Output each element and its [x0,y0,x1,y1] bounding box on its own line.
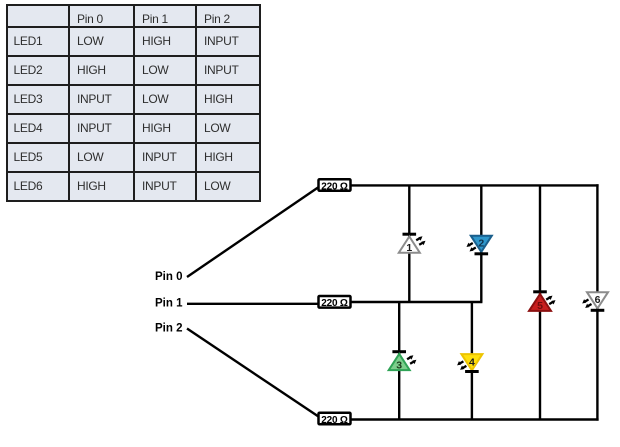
wire top rail (net A, from R1) [350,184,599,186]
svg-text:4: 4 [469,356,475,368]
LED D6 triangle body [587,292,608,308]
LED D3 triangle body [389,354,410,370]
svg-text:Pin 0: Pin 0 [155,271,182,283]
wire Pin 1 to R2 (horizontal) [187,303,319,305]
wire middle rail (net B, from R2) [350,301,482,303]
LED D1 cathode bar [403,233,417,236]
resistor R3 body [319,413,351,425]
wire LED1 branch (top rail to middle rail) [408,185,410,302]
svg-text:3: 3 [396,359,402,371]
svg-text:220 Ω: 220 Ω [321,181,348,192]
wire LED2 branch (top rail to middle rail end) [480,185,482,302]
svg-text:1: 1 [406,242,412,254]
LED D5 light arrows [546,297,551,300]
wire LED4 branch (middle rail to bottom rail) [471,302,473,420]
resistor R1 body [319,179,351,191]
svg-text:6: 6 [595,294,601,306]
LED D1 light arrows [416,238,421,241]
LED D6 cathode bar [591,309,605,312]
LED D4 light arrows [459,361,464,364]
LED D3 light arrows [407,357,412,360]
resistor R2 [319,296,351,309]
LED D3 (green, cathode up) [389,352,417,372]
resistor R1 [319,179,351,192]
svg-text:Pin 1: Pin 1 [155,298,183,310]
LED D4 triangle body [461,354,482,370]
LED D6 light arrows [584,300,589,303]
svg-text:Pin 2: Pin 2 [155,323,182,335]
resistor R2 body [319,296,351,308]
svg-text:5: 5 [537,300,543,312]
LED D4 (yellow, cathode down) [457,354,482,371]
svg-text:220 Ω: 220 Ω [321,298,348,309]
wire Pin 2 to R3 (diagonal) [187,329,319,417]
svg-text:2: 2 [478,238,484,250]
LED D2 (blue, cathode down) [467,236,492,254]
wire LED6 branch (right edge, top rail to bottom rail) [596,184,598,420]
wire Pin 0 to R1 (diagonal) [187,188,318,278]
LED D2 light arrows [468,243,473,246]
LED D1 triangle body [399,237,420,253]
LED D2 triangle body [471,236,492,252]
LED D4 cathode bar [465,370,479,373]
wire bottom rail (net C, from R3) [350,418,599,420]
LED D5 cathode bar [533,290,547,293]
LED D5 triangle body [529,294,551,311]
LED D6 (white, cathode down) [582,292,608,310]
LED D2 cathode bar [475,252,489,255]
LED D3 cathode bar [392,350,406,353]
svg-text:220 Ω: 220 Ω [321,415,348,426]
LED D1 (white, cathode up) [399,234,426,254]
LED D5 (red, cathode up) [529,292,556,312]
resistor R3 [319,413,351,426]
truth table of pin states for LED1..LED6 [6,4,261,202]
wire LED5 branch (top rail to bottom rail) [539,185,541,419]
wire LED3 branch (middle rail to bottom rail) [398,302,400,420]
